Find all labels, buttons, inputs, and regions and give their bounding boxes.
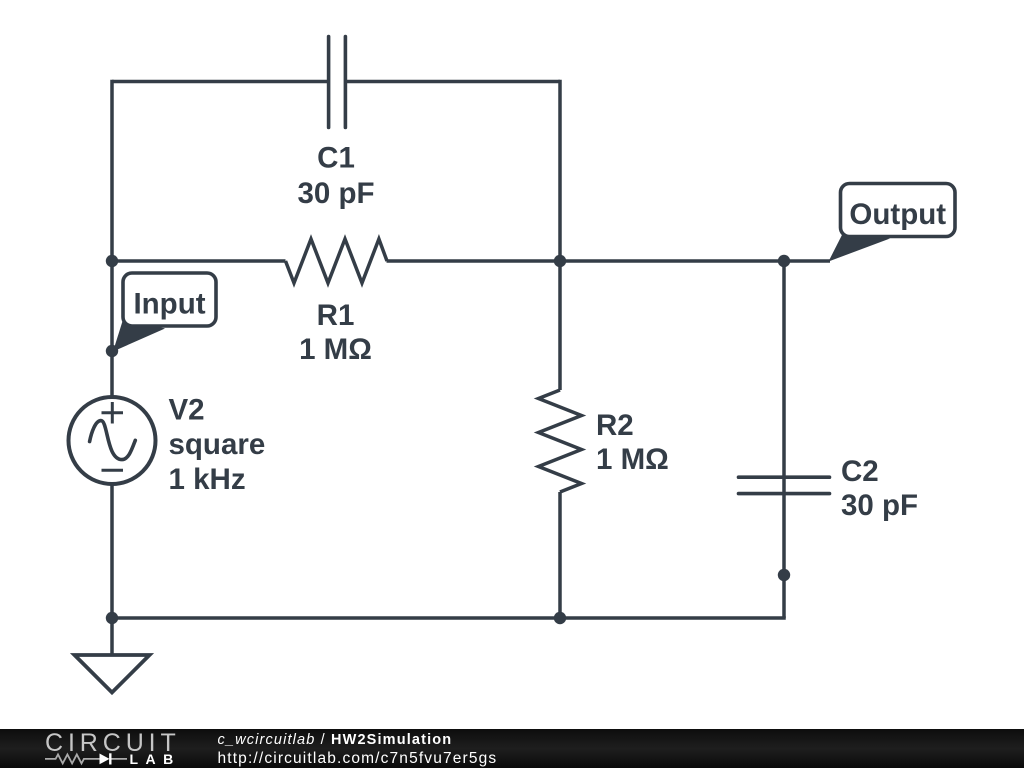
svg-text:1 MΩ: 1 MΩ (596, 443, 669, 476)
node label Input (113, 273, 216, 352)
svg-text:V2: V2 (169, 394, 205, 427)
wire right vertical through C2 (782, 261, 786, 618)
svg-text:square: square (169, 428, 266, 461)
svg-text:LAB: LAB (130, 751, 181, 767)
voltage source V2 (69, 397, 156, 484)
resistor R1 (286, 239, 388, 283)
svg-text:R1: R1 (317, 299, 355, 332)
node junction Input label anchor (106, 345, 118, 357)
capacitor C2 (739, 477, 830, 493)
wire top-left horizontal (112, 80, 329, 84)
node junction C2 bottom terminal (778, 569, 790, 581)
node junction ground net at V2 bottom (106, 612, 118, 624)
svg-text:C1: C1 (317, 142, 355, 175)
wire left vertical lower (110, 486, 114, 656)
node label Output (829, 184, 956, 262)
svg-text:30 pF: 30 pF (297, 177, 374, 210)
wire bottom horizontal (112, 616, 786, 620)
svg-text:C2: C2 (841, 455, 879, 488)
node junction Output net (778, 255, 790, 267)
wire R2 top vertical (558, 261, 562, 390)
logo diode (100, 754, 110, 765)
node junction ground net at R2 bottom (554, 612, 566, 624)
node junction Input net at R1 left (106, 255, 118, 267)
wire left vertical upper (110, 80, 114, 396)
wire middle horizontal left (112, 259, 286, 263)
resistor R2 (539, 390, 582, 492)
wire R2 bottom vertical (558, 492, 562, 618)
wire top-right horizontal (345, 80, 560, 84)
svg-text:http://circuitlab.com/c7n5fvu7: http://circuitlab.com/c7n5fvu7er5gs (218, 750, 498, 767)
node junction R1 right / R2 top / C1 right (554, 255, 566, 267)
ground (75, 655, 150, 693)
svg-text:Output: Output (849, 198, 946, 231)
svg-text:1 kHz: 1 kHz (169, 463, 246, 496)
capacitor C1 (329, 37, 346, 128)
wire middle horizontal right (387, 259, 831, 263)
wire right-top vertical (558, 80, 562, 261)
logo resistor-diode glyph (45, 754, 127, 763)
svg-text:Input: Input (133, 288, 205, 321)
svg-text:c_wcircuitlab / HW2Simulation: c_wcircuitlab / HW2Simulation (218, 732, 453, 748)
svg-text:R2: R2 (596, 409, 634, 442)
svg-text:1 MΩ: 1 MΩ (299, 333, 372, 366)
svg-text:30 pF: 30 pF (841, 489, 918, 522)
